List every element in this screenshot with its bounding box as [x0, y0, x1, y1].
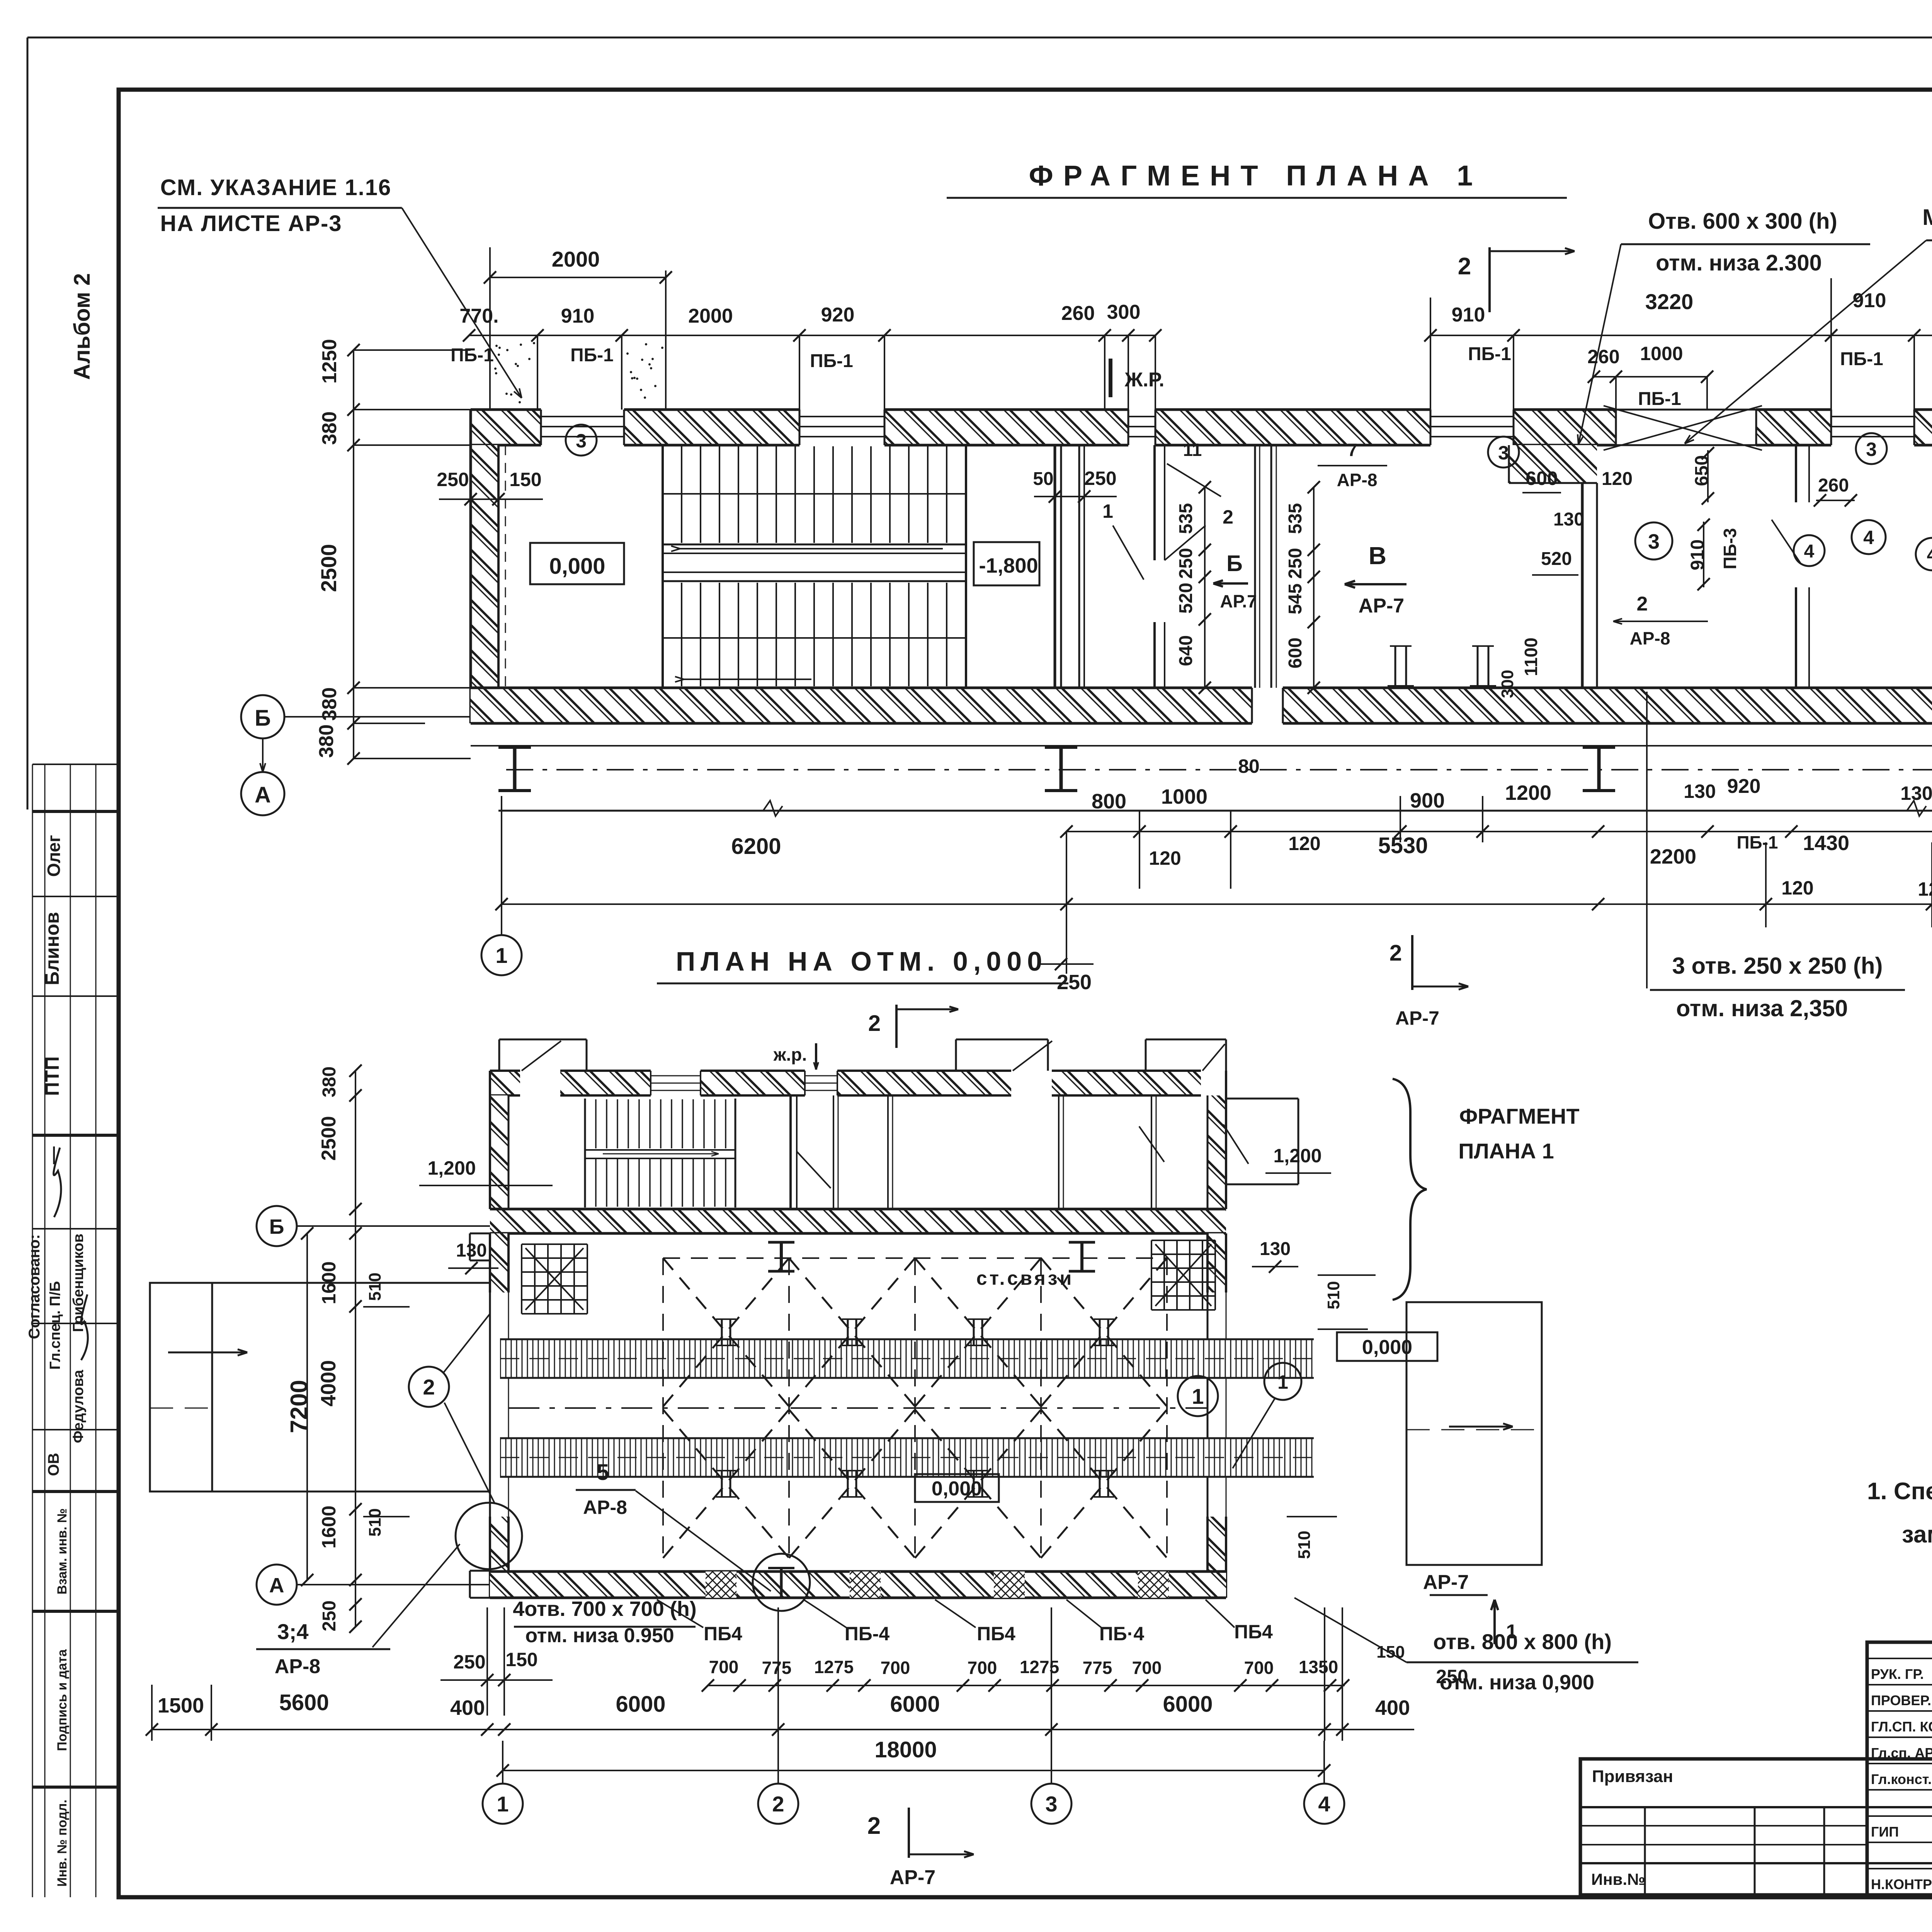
svg-text:-1,800: -1,800 [979, 554, 1038, 577]
svg-text:ПЛАН НА ОТМ. 0,000: ПЛАН НА ОТМ. 0,000 [676, 946, 1048, 976]
section mark 2 AP-7 under bottom plan [867, 1808, 974, 1889]
top plan: window opening 910 PB-1 left [541, 410, 624, 445]
svg-text:2: 2 [1389, 940, 1402, 966]
top plan misc dims right rooms [1498, 447, 1932, 698]
svg-text:АР-8: АР-8 [1630, 628, 1670, 648]
svg-text:150: 150 [505, 1649, 537, 1670]
bottom plan: lintel patches PB4 [706, 1571, 1169, 1598]
svg-text:1,200: 1,200 [427, 1157, 476, 1179]
svg-text:МОНТАЖНЫЙ ПРОЕМ: МОНТАЖНЫЙ ПРОЕМ [1922, 205, 1932, 230]
bottom plan: porch 2 [956, 1039, 1048, 1071]
svg-text:910: 910 [1853, 289, 1886, 312]
bottom plan: annex partition thick [791, 1095, 831, 1209]
bottom plan: room circle 1 right [1233, 1363, 1301, 1468]
svg-text:1: 1 [497, 1792, 509, 1816]
svg-text:150: 150 [509, 469, 541, 490]
svg-text:отм. низа 0.950: отм. низа 0.950 [525, 1624, 674, 1647]
svg-text:250: 250 [1176, 548, 1196, 579]
svg-text:6000: 6000 [1163, 1692, 1213, 1717]
svg-text:2: 2 [1458, 253, 1471, 280]
bottom plan: annex entry door leaves [522, 1041, 1225, 1071]
svg-text:Отв. 600 х 300 (h): Отв. 600 х 300 (h) [1648, 209, 1837, 234]
svg-text:АР-8: АР-8 [275, 1655, 320, 1678]
svg-text:2500: 2500 [316, 544, 341, 592]
svg-text:1600: 1600 [318, 1505, 340, 1548]
privyazan table [1580, 1759, 1932, 1895]
svg-text:1000: 1000 [1161, 785, 1207, 808]
svg-text:0,000: 0,000 [932, 1478, 982, 1500]
svg-text:1. Спецификации дверей, вор: 1. Спецификации дверей, ворот, перемычек… [1867, 1478, 1932, 1505]
bottom plan: detail circle bottom wall [753, 1554, 810, 1611]
svg-text:ПБ-1: ПБ-1 [570, 345, 614, 366]
svg-text:18000: 18000 [874, 1737, 937, 1762]
bottom plan: conveyor strip 1 [500, 1339, 1314, 1378]
svg-text:130: 130 [1900, 782, 1932, 804]
top plan: window opening 910 PB-1 right [1831, 410, 1914, 445]
svg-text:ПБ4: ПБ4 [1234, 1621, 1273, 1643]
svg-text:ПБ-4: ПБ-4 [845, 1623, 890, 1645]
section mark 2 above bottom plan [868, 1005, 958, 1048]
svg-text:150: 150 [1376, 1643, 1405, 1662]
bottom plan: annex window segments [651, 1071, 837, 1095]
svg-text:300: 300 [1498, 670, 1517, 698]
top plan vertical dims 910 PB-3 left [1687, 519, 1740, 590]
top plan room circles [566, 425, 1932, 570]
svg-text:Гл.конст.: Гл.конст. [1871, 1771, 1932, 1787]
svg-text:6200: 6200 [731, 834, 781, 859]
svg-text:Согласовано:: Согласовано: [26, 1234, 43, 1339]
bottom plan: detail circle bottom-left corner [456, 1503, 522, 1569]
top plan: I-beam columns under wall [498, 747, 1932, 791]
axis circle B top plan [241, 695, 471, 738]
svg-text:120: 120 [1149, 847, 1181, 869]
svg-text:1: 1 [1277, 1371, 1288, 1393]
note 4 otv 700x700 [513, 1597, 697, 1647]
svg-text:535: 535 [1176, 503, 1196, 534]
svg-text:520: 520 [1176, 583, 1196, 614]
svg-text:640: 640 [1176, 635, 1196, 666]
title block signature entries [1871, 1663, 1932, 1893]
bottom plan dim tier 700 775 1275 700 [702, 1643, 1468, 1692]
svg-text:АР-7: АР-7 [1395, 1007, 1439, 1029]
top plan: door leaves [1772, 520, 1932, 563]
top plan: stair right wall partition [1055, 445, 1061, 688]
svg-text:АР-7: АР-7 [890, 1866, 935, 1889]
bottom plan: right 1200 platform [1226, 1099, 1298, 1184]
svg-text:120: 120 [1781, 877, 1813, 899]
svg-text:920: 920 [1727, 775, 1761, 798]
top plan: staircase [663, 445, 966, 688]
section mark 2 AP-7 bottom [1389, 935, 1468, 1029]
svg-text:600: 600 [1285, 638, 1306, 668]
svg-text:отв. 800 х 800 (h): отв. 800 х 800 (h) [1433, 1629, 1612, 1654]
top plan: exterior top wall hatched band [471, 410, 1932, 445]
svg-text:400: 400 [450, 1696, 485, 1719]
bottom plan: brace node columns [716, 1319, 1114, 1497]
bottom plan: porch 3 [1146, 1039, 1226, 1071]
bottom plan: label 3;4 AP-8 leader [256, 1544, 460, 1678]
svg-text:1350: 1350 [1299, 1657, 1338, 1677]
svg-text:ст.связи: ст.связи [976, 1267, 1074, 1289]
svg-text:380: 380 [319, 1066, 340, 1097]
svg-text:380: 380 [315, 724, 338, 758]
svg-text:0,000: 0,000 [549, 554, 605, 579]
svg-text:ПБ-1: ПБ-1 [1840, 349, 1883, 369]
svg-text:А: А [255, 782, 271, 808]
svg-text:650: 650 [1692, 455, 1712, 486]
bottom plan: zh.r. label [773, 1043, 818, 1070]
svg-text:АР-8: АР-8 [583, 1497, 627, 1518]
bottom plan: hall left wall [470, 1233, 509, 1598]
AP-7 arrow right of bottom plan [1423, 1571, 1517, 1644]
svg-text:ФРАГМЕНТ ПЛАНА 1: ФРАГМЕНТ ПЛАНА 1 [1029, 160, 1483, 192]
svg-text:920: 920 [821, 304, 855, 326]
svg-text:700: 700 [709, 1657, 739, 1677]
top plan lintel labels PB-1 [451, 345, 853, 371]
svg-text:1500: 1500 [158, 1694, 204, 1717]
svg-text:5: 5 [597, 1460, 609, 1485]
top plan: montage opening 1000x2400 with cross [1604, 406, 1762, 450]
top plan: thin partition pair B section [1255, 445, 1276, 688]
svg-text:120: 120 [1288, 833, 1320, 854]
svg-text:6000: 6000 [890, 1692, 940, 1717]
svg-text:4000: 4000 [317, 1360, 340, 1406]
bottom plan: annex staircase [585, 1099, 735, 1207]
svg-text:1100: 1100 [1521, 638, 1541, 676]
top plan level mark -1,800 [974, 542, 1039, 585]
svg-text:900: 900 [1410, 789, 1445, 812]
bottom plan: corner pit stair left [522, 1244, 587, 1314]
svg-text:Б: Б [1226, 551, 1243, 576]
svg-text:130: 130 [1684, 781, 1716, 802]
svg-text:5530: 5530 [1378, 833, 1428, 858]
svg-text:Грибенщиков: Грибенщиков [70, 1234, 87, 1332]
svg-text:250: 250 [1436, 1666, 1468, 1687]
svg-text:7200: 7200 [286, 1380, 313, 1433]
top plan interior dim stack 1 [1176, 481, 1211, 694]
note otv 800x800 [1294, 1598, 1638, 1694]
bottom plan: conveyor strip 2 [500, 1438, 1314, 1477]
left margin handwritten entries [26, 835, 88, 1476]
svg-text:ПБ-1: ПБ-1 [451, 345, 494, 366]
svg-text:Б: Б [255, 706, 271, 731]
svg-text:3: 3 [1648, 530, 1660, 553]
svg-text:910: 910 [561, 305, 595, 327]
svg-text:775: 775 [762, 1658, 792, 1678]
svg-text:отм. низа 2.300: отм. низа 2.300 [1656, 250, 1822, 276]
top plan left dimension stack [315, 339, 471, 765]
title Plan na otm 0,000 [657, 946, 1068, 983]
top plan: room 3 left wall [1582, 483, 1597, 688]
bottom plan: annex right wall [1207, 1071, 1226, 1209]
svg-text:РУК. ГР.: РУК. ГР. [1871, 1666, 1924, 1682]
sheet outer border left line [27, 37, 29, 810]
bottom plan left dimension stack [286, 1065, 410, 1633]
svg-text:250: 250 [453, 1651, 485, 1673]
bottom plan: level 0,000 box right [1337, 1332, 1437, 1361]
svg-text:Н.КОНТРОЛЬ: Н.КОНТРОЛЬ [1871, 1876, 1932, 1892]
svg-text:3: 3 [1498, 442, 1509, 464]
svg-text:2: 2 [1223, 506, 1233, 528]
svg-text:4: 4 [1804, 541, 1815, 562]
left margin label Album 2 [70, 273, 95, 380]
svg-text:50: 50 [1033, 469, 1053, 489]
svg-text:1: 1 [1102, 500, 1113, 522]
svg-text:ПБ-1: ПБ-1 [1736, 832, 1778, 852]
svg-text:ПБ-1: ПБ-1 [1638, 389, 1681, 409]
bottom plan right 1,200 label [1265, 1145, 1331, 1173]
svg-text:СМ. УКАЗАНИЕ 1.16: СМ. УКАЗАНИЕ 1.16 [160, 175, 392, 200]
bottom plan: left dock platform [150, 1283, 490, 1492]
svg-text:2500: 2500 [318, 1116, 340, 1161]
svg-text:Инв. № подл.: Инв. № подл. [55, 1799, 70, 1887]
sheet outer border top line [27, 37, 1932, 39]
svg-text:4отв. 700 х 700 (h): 4отв. 700 х 700 (h) [513, 1597, 697, 1621]
svg-text:510: 510 [1295, 1531, 1314, 1559]
axis circle 2 bottom plan [758, 1741, 798, 1824]
note montazhny proem 1000x2400 [1685, 205, 1932, 444]
svg-text:3220: 3220 [1645, 289, 1694, 314]
svg-text:775: 775 [1083, 1658, 1112, 1678]
bottom plan: annex thin partitions [833, 1095, 1156, 1209]
svg-text:545: 545 [1285, 583, 1306, 614]
svg-text:1430: 1430 [1803, 832, 1849, 855]
svg-text:130: 130 [456, 1240, 487, 1261]
top plan: partition with door [1155, 445, 1206, 688]
svg-text:Ж.Р.: Ж.Р. [1124, 369, 1165, 391]
bottom plan: annex door leaf diagonals [1139, 1124, 1248, 1164]
top plan interior dim stack 2 [1285, 481, 1320, 694]
svg-text:700: 700 [881, 1658, 910, 1678]
bottom plan: room circle 1 inside [1178, 1376, 1218, 1416]
left margin printed labels [55, 1508, 70, 1886]
axis circle B bottom plan [257, 1206, 490, 1246]
bottom plan: level 0,000 box inside [915, 1474, 999, 1502]
svg-text:АР-7: АР-7 [1423, 1571, 1469, 1594]
top plan: interior columns [1388, 646, 1496, 686]
svg-text:Олег: Олег [44, 835, 64, 877]
svg-text:3: 3 [1866, 439, 1877, 460]
svg-text:120: 120 [1918, 878, 1932, 900]
svg-text:3 отв. 250 х 250 (h): 3 отв. 250 х 250 (h) [1672, 953, 1883, 979]
svg-text:250: 250 [437, 469, 469, 490]
svg-text:ПБ4: ПБ4 [704, 1623, 742, 1645]
svg-text:1275: 1275 [1020, 1657, 1059, 1677]
svg-text:ПБ-1: ПБ-1 [810, 351, 853, 371]
svg-text:2000: 2000 [552, 247, 600, 271]
svg-text:Гл.спец. П/Б: Гл.спец. П/Б [47, 1281, 63, 1369]
bottom plan: porch 1 [499, 1039, 587, 1071]
svg-text:Подпись и дата: Подпись и дата [55, 1649, 70, 1751]
svg-text:1000: 1000 [1640, 343, 1683, 364]
svg-text:ПБ-3: ПБ-3 [1720, 528, 1740, 569]
axis circle 1 top plan [481, 935, 522, 975]
bottom plan dim 18000 [497, 1737, 1330, 1777]
svg-text:11: 11 [1183, 440, 1202, 460]
svg-text:НА ЛИСТЕ АР-3: НА ЛИСТЕ АР-3 [160, 211, 342, 236]
bottom plan right side dims [448, 1239, 1376, 1559]
svg-text:ПБ-1: ПБ-1 [1468, 344, 1511, 364]
svg-text:ОВ: ОВ [45, 1453, 62, 1476]
svg-text:3: 3 [576, 430, 587, 452]
top plan: window opening 920 PB-1 [799, 410, 884, 445]
bottom plan: st.svyazi label [976, 1267, 1074, 1289]
svg-text:1275: 1275 [814, 1657, 854, 1677]
svg-text:250: 250 [1057, 971, 1092, 994]
svg-text:Б: Б [269, 1215, 284, 1238]
svg-text:120: 120 [1602, 469, 1633, 489]
svg-text:Федулова: Федулова [70, 1369, 87, 1443]
svg-text:ПРОВЕР.: ПРОВЕР. [1871, 1692, 1931, 1708]
title Fragment plana 1 [947, 160, 1567, 198]
svg-text:4: 4 [1318, 1792, 1330, 1816]
svg-text:250: 250 [319, 1600, 340, 1631]
svg-text:80: 80 [1238, 755, 1260, 777]
top plan: crane beam axis dash-dot [506, 769, 1932, 770]
svg-text:Блинов: Блинов [41, 912, 63, 985]
svg-text:ПБ·4: ПБ·4 [1099, 1623, 1145, 1645]
bottom plan: hall right wall [1207, 1233, 1226, 1598]
svg-text:2: 2 [867, 1813, 881, 1839]
svg-text:ж.р.: ж.р. [773, 1044, 807, 1065]
svg-text:АР.7: АР.7 [1220, 591, 1257, 611]
svg-text:800: 800 [1092, 790, 1126, 813]
svg-text:ПЛАНА 1: ПЛАНА 1 [1458, 1139, 1554, 1163]
svg-text:ФРАГМЕНТ: ФРАГМЕНТ [1459, 1104, 1579, 1128]
svg-text:2: 2 [868, 1011, 881, 1036]
bottom plan: annex left wall [490, 1071, 509, 1209]
svg-text:2200: 2200 [1650, 845, 1696, 868]
svg-text:2: 2 [1637, 593, 1648, 615]
section mark 2 AP-8 [1613, 593, 1708, 648]
svg-text:0,000: 0,000 [1362, 1336, 1412, 1359]
top plan: thin line under wall [471, 745, 1932, 747]
top plan pier speckles [494, 342, 663, 403]
svg-text:260: 260 [1587, 346, 1619, 367]
top plan: left exterior wall [471, 410, 505, 723]
top plan level mark 0,000 [530, 543, 624, 584]
svg-text:ПТП: ПТП [41, 1056, 63, 1096]
bottom plan: label 5 AP-8 leader [576, 1460, 771, 1591]
svg-text:Привязан: Привязан [1592, 1767, 1673, 1786]
top plan: shaft partition [1079, 445, 1084, 688]
svg-text:910: 910 [1687, 539, 1708, 570]
axis circle 3 bottom plan [1031, 1741, 1071, 1824]
svg-text:380: 380 [318, 412, 341, 445]
bottom plan main dim tier 1500 5600 400 6000 6000 6000 400 [146, 1607, 1414, 1741]
bottom plan dims 250 150 left [440, 1607, 553, 1716]
svg-text:3;4: 3;4 [277, 1619, 309, 1644]
svg-text:400: 400 [1375, 1696, 1410, 1719]
svg-text:7: 7 [1347, 440, 1357, 460]
note otv 600x300 [1578, 209, 1870, 444]
svg-text:Взам. инв. №: Взам. инв. № [55, 1508, 70, 1594]
svg-text:130: 130 [1553, 509, 1584, 530]
top plan sub-dimension 260 1000 PB-1 [1468, 343, 1883, 410]
bottom plan left 1,200 label [419, 1157, 553, 1185]
note 3 otv 250x250 [1647, 692, 1905, 1021]
top plan: opening 300 Zh.R. [1128, 410, 1155, 445]
svg-text:1: 1 [1192, 1384, 1204, 1408]
svg-text:ГЛ.СП. КСН: ГЛ.СП. КСН [1871, 1719, 1932, 1735]
svg-text:130: 130 [1260, 1239, 1291, 1259]
svg-text:260: 260 [1061, 302, 1095, 325]
bottom plan: steel braces grid [663, 1258, 1167, 1558]
svg-text:250: 250 [1084, 468, 1116, 489]
svg-text:1: 1 [1506, 1621, 1517, 1643]
bottom plan: bottom wall hatched band [490, 1571, 1226, 1598]
svg-text:А: А [269, 1574, 284, 1597]
left margin form grid [32, 764, 119, 1897]
top plan: bottom wall hatched band [471, 688, 1932, 723]
svg-text:отм. низа 2,350: отм. низа 2,350 [1676, 995, 1848, 1021]
svg-text:Инв.№: Инв.№ [1591, 1870, 1645, 1888]
svg-text:2000: 2000 [688, 305, 733, 327]
top plan: niche wall 600 [1509, 445, 1597, 483]
svg-text:1250: 1250 [318, 339, 341, 384]
bottom plan: right dock platform [1406, 1302, 1542, 1565]
svg-text:510: 510 [366, 1272, 384, 1301]
top plan: window opening 910 left-mid [1430, 410, 1514, 445]
top plan bottom tier2 dims 6200 5530 2200 1430 2200 [495, 773, 1932, 994]
svg-text:4: 4 [1927, 545, 1932, 565]
svg-text:600: 600 [1526, 468, 1558, 489]
svg-text:300: 300 [1107, 301, 1141, 323]
svg-text:520: 520 [1541, 549, 1572, 569]
svg-text:380: 380 [318, 687, 341, 721]
svg-text:1: 1 [495, 943, 507, 968]
svg-text:ГИП: ГИП [1871, 1824, 1899, 1840]
svg-text:1200: 1200 [1505, 781, 1551, 804]
bottom plan: hall center axis dash-dot [509, 1407, 1207, 1409]
bottom plan: I-beam symbols on B wall [768, 1242, 1095, 1271]
svg-text:В: В [1369, 542, 1386, 570]
svg-text:5600: 5600 [279, 1690, 329, 1715]
svg-text:2: 2 [423, 1375, 435, 1399]
axis circle 4 bottom plan [1304, 1741, 1344, 1824]
axis circle 1 bottom plan [483, 1741, 523, 1824]
top plan: bottom wall door gap [1252, 688, 1283, 723]
svg-text:2: 2 [772, 1792, 784, 1816]
svg-text:510: 510 [366, 1508, 384, 1536]
fragment plana 1 brace [1393, 1079, 1580, 1300]
svg-text:АР-8: АР-8 [1337, 470, 1378, 490]
section mark V AP-7 [1345, 542, 1406, 617]
svg-text:700: 700 [968, 1658, 997, 1678]
svg-text:700: 700 [1132, 1658, 1162, 1678]
bottom plan: PB4 labels [657, 1600, 1273, 1645]
svg-text:535: 535 [1285, 503, 1306, 534]
svg-text:910: 910 [1452, 304, 1485, 326]
svg-text:250: 250 [1285, 548, 1306, 579]
top plan bottom tier1 dims [1060, 755, 1932, 889]
axis circle A top plan [241, 738, 284, 815]
svg-text:260: 260 [1818, 475, 1849, 496]
top plan: tambour partition left [1796, 445, 1809, 688]
top plan section mark 2 AP-7 top [1458, 247, 1575, 312]
svg-text:замаркированных на данном л: замаркированных на данном листе, см. АР-… [1902, 1521, 1932, 1548]
top plan wall thickness dims 250 150 [437, 469, 543, 505]
svg-text:510: 510 [1324, 1281, 1343, 1309]
bottom plan: corner pit stair right [1151, 1240, 1215, 1310]
top plan: lower retaining wall line [498, 801, 1932, 816]
section mark B AP-7 [1213, 551, 1257, 611]
svg-text:1,200: 1,200 [1273, 1145, 1321, 1167]
bottom plan: B axis wall hatched band [490, 1209, 1226, 1233]
svg-text:1600: 1600 [318, 1261, 340, 1304]
top plan dimension tier right 910 3220 910 2960 [1424, 278, 1932, 410]
top plan dimension 2000 tier A [484, 247, 672, 410]
